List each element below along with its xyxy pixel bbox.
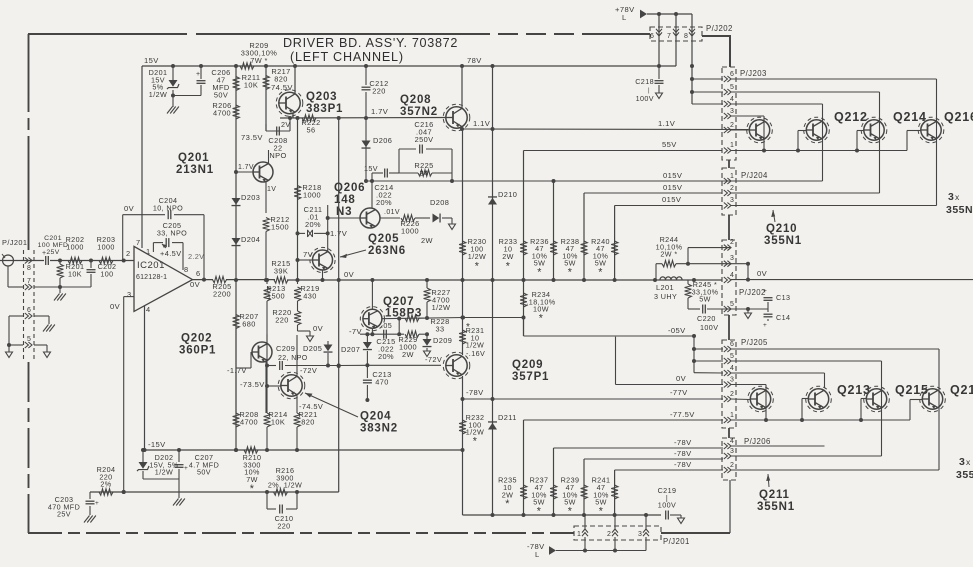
wire Q201 emitter (266, 181, 276, 213)
svg-text:2: 2 (730, 122, 734, 129)
svg-text:1500: 1500 (271, 223, 289, 232)
svg-text:2: 2 (730, 239, 734, 246)
ground C219 arrow (678, 518, 685, 524)
svg-text:D208: D208 (430, 198, 449, 207)
ground C203 (84, 516, 96, 523)
ground pin6 slash (43, 325, 55, 332)
resistor R225 (399, 149, 454, 183)
resistor R231 (459, 322, 485, 358)
svg-text:L201: L201 (656, 283, 674, 292)
capacitor C209 (265, 344, 341, 370)
pin 4 wire (143, 305, 151, 452)
label 7V (303, 250, 314, 259)
wire -05V drop (692, 337, 696, 373)
svg-text:1000: 1000 (66, 242, 84, 251)
svg-text:*: * (473, 436, 478, 448)
resistor R245 (685, 280, 719, 309)
capacitor C204 feedback (123, 196, 204, 280)
pin 6 label (196, 269, 201, 278)
svg-text:2%, 1/2W: 2%, 1/2W (268, 481, 302, 490)
svg-text:P/J202: P/J202 (706, 24, 733, 33)
svg-text:4700: 4700 (213, 109, 231, 118)
capacitor C219 (658, 486, 681, 520)
capacitor C211 (298, 205, 348, 238)
svg-text:-15V: -15V (148, 440, 166, 449)
svg-text:7: 7 (136, 238, 141, 247)
wire -78V rail c (615, 460, 723, 470)
label 3x 355N bottom (956, 456, 973, 481)
wire 0V pin link (616, 337, 724, 385)
svg-text:.05: .05 (381, 321, 392, 330)
diode D208 (430, 198, 452, 224)
pin 1 label (146, 247, 151, 256)
svg-text:360P1: 360P1 (179, 345, 216, 357)
resistor R221 (294, 410, 318, 452)
pin 2 PJ204 (724, 185, 734, 196)
ground D208 arrow (449, 224, 456, 230)
diode D205 (303, 341, 333, 368)
svg-text:357P1: 357P1 (512, 371, 549, 383)
wire Q202 emitter (265, 361, 267, 413)
wire x747 link (746, 262, 750, 280)
wire Q210a emitter (762, 149, 766, 153)
svg-text:L: L (622, 13, 627, 22)
wire Q211a emitter (764, 418, 768, 422)
diode D209 (423, 334, 453, 351)
wire -78V feed row (556, 549, 646, 553)
svg-text:+: + (763, 288, 767, 295)
capacitor C208 (266, 118, 291, 160)
svg-text:-78V: -78V (674, 449, 692, 458)
svg-text:263N6: 263N6 (368, 245, 406, 257)
svg-text:x: x (966, 457, 971, 467)
svg-text:1V: 1V (267, 186, 276, 193)
wire Q206 collector (371, 181, 373, 208)
svg-text:-05V: -05V (668, 326, 686, 335)
capacitor C214 (364, 164, 399, 207)
wire 78V rail (142, 56, 676, 68)
svg-text:6: 6 (730, 71, 734, 78)
svg-text:3: 3 (959, 456, 965, 468)
resistor R202 (66, 235, 85, 264)
wire bottom bus (463, 513, 662, 517)
transistor Q216 (918, 110, 973, 143)
svg-text:220: 220 (372, 87, 386, 96)
label Q204 (305, 393, 398, 435)
resistor R233 (499, 237, 527, 272)
wire pin6 row (692, 79, 937, 206)
svg-text:1/2W: 1/2W (432, 303, 451, 312)
wire pin4 PJ205 link (694, 372, 723, 374)
capacitor C206 (173, 66, 231, 100)
wire pin7 row (8, 266, 91, 289)
pin 2 PJ201b (607, 529, 618, 538)
svg-text:P/J203: P/J203 (740, 69, 767, 78)
svg-text:4: 4 (146, 305, 151, 314)
wire pin6 loop (7, 316, 23, 352)
svg-text:-.16V: -.16V (466, 349, 485, 358)
transistor Q208 (400, 94, 470, 131)
wire pin5 row b (731, 361, 882, 456)
svg-text:015V: 015V (663, 171, 683, 180)
label -73.5V (240, 380, 265, 389)
svg-text:470: 470 (375, 378, 389, 387)
svg-text:15V: 15V (144, 56, 159, 65)
transistor Q201 (253, 162, 273, 182)
pin 8 label (184, 265, 189, 274)
svg-text:430: 430 (303, 292, 317, 301)
svg-text:015V: 015V (662, 195, 682, 204)
svg-text:-72V: -72V (300, 366, 317, 375)
pin 6 PJ202 (650, 29, 662, 40)
resistor R234 (520, 290, 556, 325)
wire pin4 row b (731, 373, 825, 388)
wire 55V emitter bus (731, 149, 907, 153)
svg-text:+: + (184, 465, 188, 472)
svg-text:10K: 10K (244, 81, 258, 90)
svg-text:Q202: Q202 (181, 333, 212, 345)
svg-text:NPO: NPO (269, 151, 286, 160)
svg-text:357N2: 357N2 (400, 106, 438, 118)
svg-text:1: 1 (730, 412, 734, 419)
svg-text:50V: 50V (197, 468, 211, 477)
label 73.5V (241, 133, 263, 142)
pin 3 PJ206 (724, 448, 734, 459)
wire pin7 drop (675, 14, 677, 66)
wire Q204 collector (296, 335, 298, 377)
svg-text:*: * (250, 483, 255, 495)
wire PJ202 to PJ203 link (702, 36, 730, 67)
svg-text:4: 4 (730, 272, 734, 279)
pin 5 PJ203 (724, 84, 734, 95)
svg-text:015V: 015V (663, 183, 683, 192)
transistor Q211a (748, 386, 774, 412)
wire pin8 drop (690, 14, 694, 104)
pin 6 PJ203 (724, 71, 734, 82)
pin 2 PJ205 (724, 391, 734, 402)
transistor Q203 (276, 90, 343, 117)
connector PJ201 input box (2, 238, 34, 360)
svg-text:3: 3 (730, 448, 734, 455)
resistor R215 (271, 259, 290, 283)
capacitor C207 (175, 450, 220, 479)
resistor R214 (264, 340, 288, 452)
wire rail x297 (296, 118, 300, 280)
pin 6 PJ201 lower (25, 307, 32, 319)
svg-text:-78V: -78V (674, 460, 692, 469)
wire -05V row (524, 318, 697, 339)
svg-text:2: 2 (607, 531, 611, 538)
svg-text:1000: 1000 (303, 191, 321, 200)
svg-text:*: * (598, 266, 603, 278)
svg-text:20%: 20% (305, 220, 321, 229)
svg-text:1.7V: 1.7V (238, 164, 254, 171)
ground D201 (167, 107, 179, 114)
svg-text:C220: C220 (697, 314, 716, 323)
pin 4 PJ206 (724, 438, 734, 449)
wire R235 column (523, 420, 525, 515)
resistor R244 (656, 235, 748, 280)
wire pin3 row b (731, 385, 766, 421)
pin 1 PJ204 (724, 173, 734, 184)
wire -78V rail b (584, 449, 723, 459)
wire Q205 emitter (321, 271, 325, 283)
svg-text:3: 3 (948, 191, 954, 203)
wire pin2 through (731, 192, 880, 194)
svg-text:*: * (539, 313, 544, 325)
wire Q207 base row (382, 317, 428, 321)
svg-text:*: * (466, 322, 470, 333)
label -7V (349, 327, 363, 336)
wire -78V rail a (554, 438, 724, 448)
svg-text:5: 5 (27, 336, 31, 343)
svg-text:Q211: Q211 (759, 489, 790, 501)
diode D203 (232, 193, 261, 206)
wire pin2 row b (731, 398, 751, 401)
svg-text:0V: 0V (313, 324, 324, 333)
resistor R210 (243, 447, 262, 495)
wire R233 column (523, 151, 525, 337)
resistor R235 (520, 485, 527, 499)
pin 4 PJ202L (724, 272, 734, 283)
resistor R212 (263, 215, 290, 282)
svg-text:2V: 2V (281, 120, 291, 129)
resistor R208 wire (235, 329, 237, 414)
resistor R218 (294, 183, 322, 200)
svg-text:1.1V: 1.1V (473, 119, 491, 128)
svg-text:Q204: Q204 (360, 411, 391, 423)
svg-text:7: 7 (27, 278, 31, 285)
svg-text:P/J205: P/J205 (741, 338, 768, 347)
label 74.5V (271, 83, 293, 92)
capacitor C213 (363, 365, 392, 402)
wire 118 row (280, 116, 446, 120)
svg-text:*: * (537, 266, 542, 278)
capacitor C201 (38, 235, 69, 265)
pin 3 PJ204 (724, 197, 734, 209)
svg-text:D205: D205 (303, 344, 322, 353)
svg-text:Q209: Q209 (512, 359, 543, 371)
svg-text:7W *: 7W * (250, 56, 268, 65)
svg-text:612128-1: 612128-1 (136, 274, 167, 281)
wire R241 column (614, 470, 616, 515)
label Q201 (176, 152, 214, 176)
svg-text:Q205: Q205 (368, 233, 399, 245)
svg-text:1/2W: 1/2W (155, 468, 173, 477)
wire PJ202-PJ205 link (728, 315, 730, 340)
svg-text:2.2V: 2.2V (188, 252, 204, 261)
node +78V arrow (615, 5, 647, 22)
resistor R211 (233, 73, 261, 91)
wire R236 column (553, 181, 555, 280)
pin 4 PJ205 (724, 365, 734, 376)
svg-text:56: 56 (306, 126, 315, 135)
wire 0V bus (226, 270, 722, 282)
svg-text:3: 3 (127, 290, 132, 299)
connector PJ201 bottom box (574, 526, 690, 546)
ground D209 arrow (424, 351, 443, 364)
label +4.5V (160, 244, 182, 258)
pin 7 wire (136, 238, 141, 247)
svg-text:Q207: Q207 (383, 296, 414, 308)
svg-text:*: * (599, 506, 604, 518)
wire input feed (0, 260, 44, 262)
svg-text:D207: D207 (341, 345, 360, 354)
pin 2 label (126, 249, 131, 258)
wire Q201 base (234, 164, 254, 174)
svg-text:0V: 0V (190, 280, 201, 289)
svg-text:1500: 1500 (267, 292, 285, 301)
svg-text:1: 1 (146, 247, 151, 256)
resistor R219 (294, 278, 320, 311)
wire pin4 through b (731, 445, 825, 447)
wire shield border bottom (28, 532, 574, 534)
diode D207 (341, 334, 372, 367)
svg-text:20%: 20% (376, 198, 392, 207)
wire R239 column (583, 459, 585, 515)
wire 015V row1 (366, 171, 823, 183)
svg-text:73.5V: 73.5V (241, 133, 263, 142)
svg-text:2: 2 (126, 249, 131, 258)
svg-text:10, NPO: 10, NPO (153, 203, 183, 212)
wire pin3 through b (731, 455, 882, 457)
svg-text:4700: 4700 (240, 418, 258, 427)
wire 317 row (463, 317, 524, 319)
wire Q208 collector (461, 66, 463, 108)
svg-text:3: 3 (638, 531, 642, 538)
pin 5 PJ205 (724, 353, 734, 364)
svg-text:22, NPO: 22, NPO (278, 355, 308, 362)
svg-text:1000: 1000 (401, 227, 419, 236)
svg-text:5: 5 (730, 84, 734, 91)
wire pin1b drop (584, 515, 586, 551)
svg-text:x: x (955, 192, 960, 202)
wire PJ206 drop (729, 480, 731, 533)
svg-text:C13: C13 (776, 293, 790, 302)
wire -77.5V rail (524, 410, 724, 420)
svg-text:39K: 39K (274, 267, 288, 276)
wire pin3 row (731, 116, 764, 151)
wire PJ205-PJ206 link (728, 428, 730, 438)
svg-text:74.5V: 74.5V (271, 83, 293, 92)
label Q209 (512, 359, 549, 383)
resistor R204 (97, 465, 116, 495)
svg-text:Q208: Q208 (400, 94, 431, 106)
pin 2 PJ206 (724, 462, 734, 473)
svg-text:*: * (505, 498, 510, 510)
svg-text:4: 4 (730, 96, 734, 103)
svg-text:3 UHY: 3 UHY (654, 292, 677, 301)
wire 015V row2 (584, 183, 722, 193)
svg-text:213N1: 213N1 (176, 164, 214, 176)
pin 3 PJ202L (724, 255, 734, 267)
wire 15V corner drop (141, 66, 143, 248)
resistor R203 (97, 235, 116, 264)
diode D202 (137, 450, 179, 479)
resistor R222 (301, 115, 320, 135)
svg-text:D203: D203 (241, 193, 260, 202)
svg-text:0V: 0V (676, 374, 687, 383)
pin 7 PJ201 (25, 278, 32, 290)
label R241 text (592, 476, 611, 518)
resistor R220 (272, 308, 301, 331)
svg-text:10K: 10K (271, 418, 285, 427)
label R239 text (561, 476, 580, 518)
svg-text:-77.5V: -77.5V (670, 410, 695, 419)
wire Q201 collector (268, 150, 270, 164)
wire x327 link (327, 205, 329, 252)
svg-text:(LEFT CHANNEL): (LEFT CHANNEL) (290, 50, 404, 64)
wire -77V rail (463, 388, 724, 399)
connector PJ202 top box (650, 24, 733, 41)
svg-text:IC201: IC201 (137, 260, 165, 271)
resistor R229 (398, 331, 429, 359)
svg-text:Q212: Q212 (834, 110, 868, 124)
wire Q208 emitter (461, 127, 463, 129)
resistor R213 (264, 278, 286, 340)
resistor R206 (212, 101, 239, 119)
svg-text:P/J206: P/J206 (744, 437, 771, 446)
wire pin6 gnd stub (34, 316, 49, 324)
svg-text:24: 24 (419, 169, 428, 178)
svg-text:3: 3 (730, 377, 734, 384)
svg-text:C209: C209 (276, 344, 295, 353)
wire 015V row3 (615, 195, 722, 206)
pin 3 PJ203 (724, 108, 734, 119)
pin 3 label (127, 290, 132, 299)
resistor R230 (459, 237, 486, 272)
transistor Q209 (443, 352, 470, 379)
node -78V arrow (527, 542, 556, 559)
label R235 text (498, 476, 517, 511)
svg-text:15V: 15V (364, 164, 378, 173)
svg-text:-1.7V: -1.7V (227, 366, 247, 375)
svg-text:P/J201: P/J201 (2, 238, 27, 247)
wire 492 row (90, 490, 339, 494)
svg-text:0V: 0V (110, 302, 121, 311)
wire pin5 row (692, 92, 880, 193)
transistor Q210a (747, 117, 773, 143)
svg-text:1000: 1000 (97, 242, 115, 251)
svg-text:2200: 2200 (213, 290, 231, 299)
wire 55V row (524, 140, 723, 151)
pin 1 PJ203 (724, 142, 734, 154)
wire x399 drop (398, 319, 400, 335)
resistor R226 (400, 215, 433, 245)
inductor L201 (654, 277, 682, 301)
svg-text:6: 6 (27, 307, 31, 314)
diode D204 (232, 235, 261, 246)
svg-text:3: 3 (730, 197, 734, 204)
svg-text:-77V: -77V (670, 388, 688, 397)
pin 2 PJ202L (724, 239, 734, 251)
resistor R232 (459, 413, 484, 448)
pin 3 wire (110, 297, 134, 494)
pin 2 PJ203 (724, 122, 734, 133)
wire pin4 0V (731, 269, 973, 282)
wire Q215 base riser (861, 399, 866, 421)
wire pin1 through (731, 180, 823, 182)
capacitor C14 (763, 309, 790, 329)
svg-text:355: 355 (956, 469, 973, 481)
resistor R217 (263, 67, 291, 90)
svg-text:-78V: -78V (674, 438, 692, 447)
pin 1 PJ201b (577, 529, 588, 538)
wire Q206 emitter out (381, 217, 401, 219)
wire Q204 emitter (297, 395, 323, 413)
transistor Q204 (278, 372, 305, 399)
ground pin5 arrow (44, 352, 51, 358)
